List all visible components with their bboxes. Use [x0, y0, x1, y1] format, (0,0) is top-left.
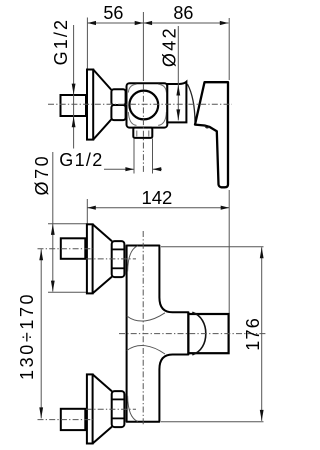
dia70 dim line [48, 152, 87, 292]
bottom hex nut (front view, 3 facets) [112, 391, 125, 427]
G1/2 top leader [73, 25, 75, 149]
cartridge flange line [187, 312, 189, 354]
top escutcheon centerline [86, 258, 136, 260]
bottom escutcheon flange (front view) [87, 374, 93, 443]
top hex nut (front view, 3 facets) [112, 241, 125, 277]
bottom inlet nipple (front view) [61, 409, 86, 430]
dia42 leader line [177, 26, 179, 120]
valve body (side view) [127, 83, 168, 127]
horizontal centerline bottom view [119, 333, 266, 335]
top escutcheon cone diagonals [93, 224, 112, 293]
svg-text:G1/2: G1/2 [59, 150, 103, 170]
escutcheon cone diagonals (side view) [93, 70, 111, 140]
escutcheon flange (side view) [87, 70, 93, 140]
centerline horizontal top view [48, 103, 232, 105]
handle cap (front view) [188, 314, 228, 353]
top inlet nipple centerline [38, 248, 94, 250]
outlet stub inner ticks [137, 131, 149, 137]
dim 142 [87, 190, 229, 313]
arrows top dim [88, 21, 229, 25]
G1/2 bottom leaders [104, 139, 162, 174]
centerline vertical top view [142, 12, 144, 174]
svg-text:142: 142 [141, 187, 172, 208]
svg-text:G1/2: G1/2 [51, 18, 71, 65]
bottom outlet stub (side view) [133, 128, 152, 138]
mixer body (front view) [127, 246, 189, 422]
body casting curves [127, 246, 165, 422]
lever bump ellipse [205, 126, 210, 128]
lever handle (side view) [195, 82, 228, 187]
dim line 56/86 [87, 18, 229, 81]
base-lever fillet curve [187, 84, 195, 122]
svg-text:130÷170: 130÷170 [17, 292, 37, 380]
svg-text:86: 86 [173, 3, 193, 23]
svg-text:176: 176 [243, 317, 263, 351]
hex nut (side view, 2 facets) [111, 89, 125, 120]
body inner fillet arcs (side view) [128, 84, 166, 125]
bottom escutcheon centerline [86, 408, 136, 410]
dim 130-170 [40, 249, 42, 418]
svg-text:Ø42: Ø42 [159, 26, 179, 67]
bottom inlet nipple centerline [38, 419, 94, 421]
top inlet nipple (front view) [61, 238, 86, 258]
inlet nipple (side view) [61, 95, 87, 116]
cap dome arc [192, 312, 206, 355]
dim 176 [161, 247, 264, 422]
svg-text:56: 56 [103, 3, 123, 23]
handle base (side view) [167, 82, 186, 123]
top escutcheon flange (front view) [87, 224, 93, 293]
bottom escutcheon cone diagonals [93, 374, 112, 443]
svg-text:Ø70: Ø70 [32, 154, 52, 196]
cartridge circle (side view) [129, 91, 158, 120]
vertical centerline bottom view [142, 231, 144, 425]
